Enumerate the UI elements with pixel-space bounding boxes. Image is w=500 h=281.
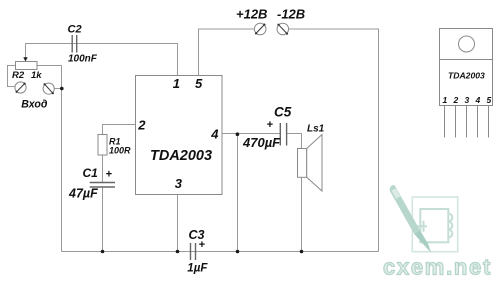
- svg-text:470µF: 470µF: [242, 135, 281, 150]
- svg-text:cxem.net: cxem.net: [383, 255, 492, 280]
- svg-text:1k: 1k: [31, 70, 42, 81]
- svg-text:Вход: Вход: [21, 99, 48, 111]
- svg-text:R2: R2: [12, 70, 25, 81]
- svg-text:1: 1: [443, 95, 448, 105]
- svg-text:3: 3: [175, 176, 183, 191]
- svg-text:3: 3: [465, 95, 470, 105]
- svg-text:100nF: 100nF: [68, 54, 98, 65]
- svg-text:C2: C2: [68, 24, 82, 36]
- svg-text:1: 1: [173, 76, 180, 91]
- svg-text:5: 5: [195, 76, 203, 91]
- svg-text:+12В: +12В: [236, 7, 267, 22]
- svg-text:TDA2003: TDA2003: [150, 148, 212, 164]
- svg-text:TDA2003: TDA2003: [448, 71, 485, 81]
- svg-text:-12В: -12В: [277, 7, 305, 22]
- svg-text:C1: C1: [83, 166, 99, 180]
- svg-text:5: 5: [487, 95, 492, 105]
- svg-text:Ls1: Ls1: [307, 124, 325, 135]
- svg-text:C5: C5: [274, 105, 292, 120]
- svg-text:100R: 100R: [109, 146, 131, 156]
- svg-text:+: +: [106, 169, 113, 181]
- svg-text:2: 2: [453, 95, 459, 105]
- svg-text:4: 4: [475, 95, 481, 105]
- svg-text:+: +: [199, 239, 206, 251]
- svg-text:4: 4: [210, 126, 219, 141]
- svg-text:+: +: [267, 119, 274, 131]
- svg-text:47µF: 47µF: [68, 187, 98, 201]
- svg-text:2: 2: [137, 118, 146, 133]
- svg-text:1µF: 1µF: [187, 263, 208, 275]
